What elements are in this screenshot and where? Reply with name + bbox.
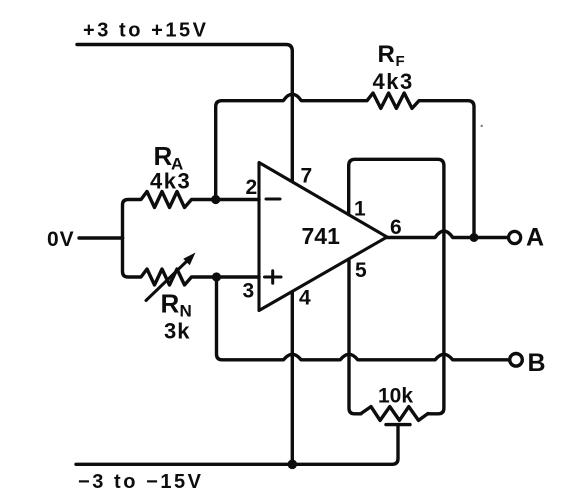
svg-text:10k: 10k — [378, 385, 413, 408]
junction dot output/RF — [470, 233, 479, 242]
svg-text:4: 4 — [299, 287, 311, 310]
wire V+ rail to pin 7 — [77, 45, 292, 182]
svg-text:R: R — [378, 41, 395, 68]
plus marker pin 3 — [265, 271, 282, 284]
wire output pin 6 to terminal A — [387, 231, 507, 238]
svg-text:1: 1 — [354, 198, 366, 221]
svg-text:3k: 3k — [164, 319, 190, 344]
svg-text:−3 to −15V: −3 to −15V — [78, 471, 204, 493]
wire 0V input stub — [79, 236, 123, 239]
terminal A circle — [508, 231, 520, 243]
speck artifact — [481, 125, 483, 127]
svg-text:B: B — [528, 349, 546, 377]
svg-text:R: R — [161, 289, 180, 319]
junction dot pin2/RA/RF — [211, 195, 220, 204]
svg-text:4k3: 4k3 — [373, 69, 414, 94]
svg-text:0V: 0V — [47, 228, 75, 251]
resistor RN variable (with wire from input tee to pin 3) — [123, 238, 260, 285]
arrow of RN — [146, 253, 196, 301]
svg-text:3: 3 — [243, 280, 255, 303]
svg-text:7: 7 — [301, 165, 313, 188]
junction dot pin3/RN/B — [212, 272, 221, 281]
svg-text:741: 741 — [302, 223, 341, 249]
wire pin 3 node down to output line B — [217, 277, 509, 360]
svg-text:2: 2 — [246, 176, 258, 199]
svg-text:5: 5 — [355, 259, 367, 282]
resistor RA (with wire from input tee to pin 2) — [123, 192, 260, 239]
wire wiper to negative rail — [76, 425, 398, 465]
wire pin 4 to negative rail — [291, 292, 294, 464]
svg-text:R: R — [154, 141, 173, 171]
svg-text:+3 to +15V: +3 to +15V — [83, 20, 209, 42]
potentiometer 10k zigzag — [361, 407, 428, 421]
svg-text:6: 6 — [390, 216, 402, 239]
svg-text:A: A — [526, 224, 544, 252]
minus marker pin 2 — [266, 198, 280, 201]
resistor RF (feedback, from pin2 node up over to output node) — [216, 93, 474, 238]
wire pin 5 to pot left end — [349, 260, 361, 414]
potentiometer wiper bar — [386, 423, 410, 426]
junction dot pin4/V- rail — [288, 460, 298, 470]
wire pin 1 offset null loop to pot right end — [349, 159, 444, 413]
svg-text:4k3: 4k3 — [150, 169, 191, 194]
op-amp U1 741 triangle — [259, 163, 387, 311]
terminal B circle — [510, 354, 523, 367]
svg-text:F: F — [396, 53, 405, 70]
